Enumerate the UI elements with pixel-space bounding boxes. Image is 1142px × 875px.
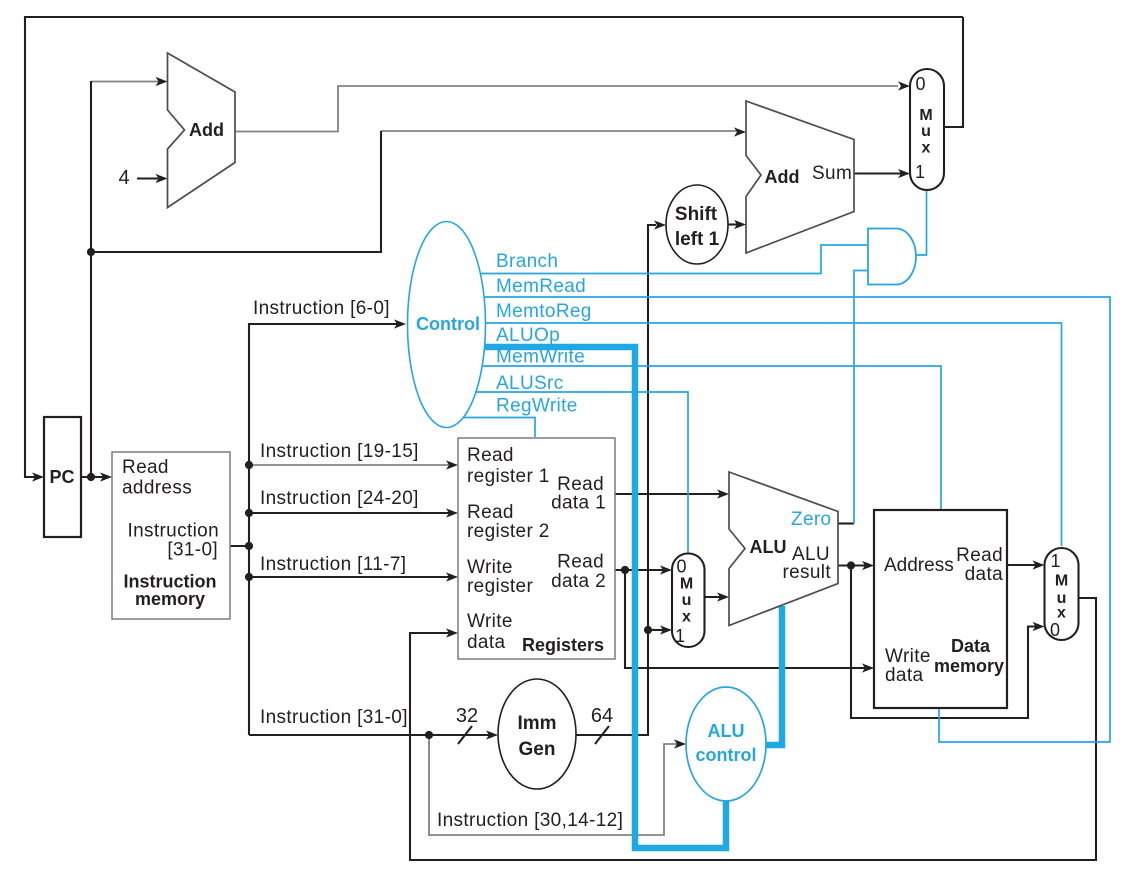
svg-text:Zero: Zero [791,509,831,530]
svg-text:M: M [680,576,693,593]
svg-text:Instruction [11-7]: Instruction [11-7] [260,554,406,575]
svg-text:Add: Add [189,120,224,140]
svg-text:Read: Read [467,502,514,523]
svg-text:data 1: data 1 [551,493,606,514]
svg-text:Read: Read [557,552,604,573]
svg-text:register 2: register 2 [467,521,550,542]
svg-text:Write: Write [467,557,513,578]
svg-text:Instruction [24-20]: Instruction [24-20] [260,488,419,509]
svg-text:M: M [919,107,932,124]
svg-text:Gen: Gen [519,739,556,760]
svg-text:64: 64 [591,705,613,727]
svg-text:memory: memory [934,656,1004,676]
svg-text:Branch: Branch [496,251,558,272]
svg-text:Write: Write [885,646,931,667]
svg-text:x: x [682,609,691,626]
svg-text:Data: Data [951,636,991,656]
svg-text:control: control [696,745,757,765]
svg-text:Instruction: Instruction [127,521,219,542]
svg-text:Add: Add [765,167,800,187]
svg-text:u: u [682,592,692,609]
svg-text:32: 32 [456,705,478,727]
svg-text:data: data [467,632,505,653]
svg-text:Imm: Imm [517,713,556,734]
svg-text:u: u [921,123,931,140]
svg-text:MemRead: MemRead [496,276,586,297]
svg-text:Shift: Shift [675,204,718,225]
svg-text:register 1: register 1 [467,466,550,487]
svg-text:result: result [782,562,831,583]
svg-text:data: data [885,665,923,686]
svg-text:PC: PC [49,467,74,487]
svg-text:left 1: left 1 [675,229,720,250]
svg-text:Instruction [6-0]: Instruction [6-0] [253,298,390,319]
svg-text:MemtoReg: MemtoReg [496,301,592,322]
svg-text:ALU: ALU [708,721,745,741]
svg-text:RegWrite: RegWrite [496,396,578,417]
svg-text:memory: memory [135,589,205,609]
svg-text:Address: Address [884,555,954,576]
svg-text:ALUSrc: ALUSrc [496,373,564,394]
svg-text:4: 4 [118,167,129,189]
svg-text:Read: Read [467,445,514,466]
svg-text:Instruction [31-0]: Instruction [31-0] [260,707,408,728]
svg-text:Instruction [30,14-12]: Instruction [30,14-12] [437,810,623,831]
svg-text:Instruction [19-15]: Instruction [19-15] [260,441,419,462]
svg-text:ALUOp: ALUOp [496,325,560,346]
svg-text:0: 0 [676,557,686,577]
svg-text:Sum: Sum [812,163,852,184]
svg-text:address: address [122,478,192,499]
svg-text:Read: Read [122,457,169,478]
svg-text:0: 0 [915,74,925,94]
svg-text:[31-0]: [31-0] [167,540,218,561]
svg-text:Registers: Registers [522,635,604,655]
svg-text:1: 1 [675,626,685,646]
svg-text:MemWrite: MemWrite [496,347,585,368]
svg-text:1: 1 [1050,551,1060,571]
svg-text:register: register [467,576,533,597]
svg-text:Read: Read [956,545,1003,566]
svg-text:M: M [1055,573,1068,590]
svg-text:x: x [922,140,931,157]
svg-text:data: data [965,564,1003,585]
svg-text:0: 0 [1050,620,1060,640]
svg-text:Write: Write [467,611,513,632]
svg-text:Control: Control [416,314,480,334]
svg-text:x: x [1057,605,1066,622]
svg-text:data 2: data 2 [551,571,606,592]
svg-text:1: 1 [915,162,925,182]
svg-text:ALU: ALU [750,537,787,557]
